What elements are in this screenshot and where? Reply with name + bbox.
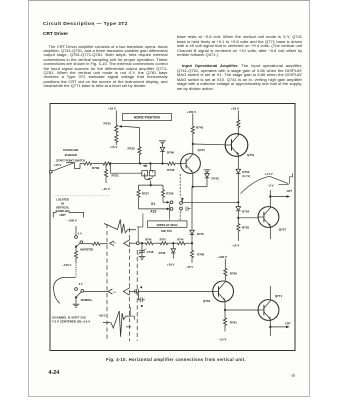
svg-text:R747: R747 bbox=[160, 238, 167, 242]
svg-text:+19 V: +19 V bbox=[167, 262, 175, 266]
svg-text:R746: R746 bbox=[145, 238, 152, 242]
svg-text:Q757: Q757 bbox=[279, 227, 287, 231]
svg-text:SW 703: SW 703 bbox=[161, 229, 172, 233]
svg-text:R760: R760 bbox=[230, 271, 238, 275]
svg-text:Q771: Q771 bbox=[275, 294, 283, 298]
svg-text:C748: C748 bbox=[147, 250, 154, 254]
svg-text:R731: R731 bbox=[112, 174, 120, 178]
svg-text:R737: R737 bbox=[142, 192, 150, 196]
svg-text:+15 V: +15 V bbox=[54, 163, 62, 167]
svg-text:(0.1 V): (0.1 V) bbox=[242, 174, 250, 178]
svg-text:–15 V: –15 V bbox=[186, 265, 193, 269]
svg-text:IN BEGIN: IN BEGIN bbox=[65, 153, 77, 157]
svg-text:NORMAL: NORMAL bbox=[81, 298, 93, 302]
svg-text:+4.7 V: +4.7 V bbox=[265, 172, 273, 176]
svg-text:–15 V: –15 V bbox=[110, 145, 118, 149]
svg-text:VERTICAL: VERTICAL bbox=[56, 205, 70, 209]
svg-text:–2 V: –2 V bbox=[268, 183, 274, 187]
svg-text:0 V: 0 V bbox=[79, 282, 83, 286]
svg-text:+150 V: +150 V bbox=[187, 110, 197, 114]
svg-text:CRT: CRT bbox=[285, 321, 291, 325]
svg-text:R738: R738 bbox=[92, 166, 100, 170]
svg-text:–15 V: –15 V bbox=[219, 338, 227, 342]
svg-text:+300 V: +300 V bbox=[68, 218, 77, 222]
svg-text:R735: R735 bbox=[128, 147, 136, 151]
svg-text:–100 V: –100 V bbox=[63, 263, 72, 267]
svg-text:HORIZ POSITION: HORIZ POSITION bbox=[134, 116, 161, 120]
svg-text:7.5 V CENTERED ON +10 V: 7.5 V CENTERED ON +10 V bbox=[52, 320, 90, 324]
svg-text:–15 V: –15 V bbox=[102, 187, 110, 191]
svg-text:–15 V: –15 V bbox=[232, 243, 240, 247]
svg-text:D743: D743 bbox=[212, 177, 220, 181]
svg-text:+19 V: +19 V bbox=[231, 106, 239, 110]
svg-text:R740: R740 bbox=[167, 168, 175, 172]
svg-text:SAMPLING: SAMPLING bbox=[56, 209, 70, 213]
svg-text:R733: R733 bbox=[104, 122, 112, 126]
svg-text:R736: R736 bbox=[166, 192, 174, 196]
svg-text:CRT: CRT bbox=[287, 189, 293, 193]
svg-text:LOCATED: LOCATED bbox=[56, 198, 69, 202]
svg-text:D740: D740 bbox=[167, 150, 175, 154]
svg-text:–100 V: –100 V bbox=[98, 315, 106, 318]
svg-text:UNIT: UNIT bbox=[59, 213, 66, 217]
svg-text:STAIRCASE: STAIRCASE bbox=[63, 148, 79, 152]
svg-text:12: 12 bbox=[113, 292, 116, 294]
svg-text:X10: X10 bbox=[150, 210, 156, 214]
svg-text:D746: D746 bbox=[159, 251, 166, 255]
svg-text:IN: IN bbox=[61, 201, 64, 205]
svg-text:INVERTED: INVERTED bbox=[80, 247, 93, 251]
svg-text:R748: R748 bbox=[197, 253, 204, 257]
svg-text:0 V: 0 V bbox=[78, 231, 82, 235]
svg-text:DISPLAY MAG: DISPLAY MAG bbox=[157, 223, 179, 227]
svg-text:Q751: Q751 bbox=[247, 153, 255, 157]
svg-text:D754: D754 bbox=[242, 209, 250, 213]
svg-text:+19 V: +19 V bbox=[108, 107, 116, 111]
svg-text:R755: R755 bbox=[242, 226, 250, 230]
svg-text:X1: X1 bbox=[151, 202, 155, 206]
svg-text:D753: D753 bbox=[242, 170, 250, 174]
svg-text:11: 11 bbox=[113, 242, 116, 244]
svg-text:+100 V: +100 V bbox=[218, 255, 228, 259]
svg-text:R761: R761 bbox=[230, 321, 238, 325]
svg-text:R742: R742 bbox=[196, 125, 204, 129]
svg-text:Q741: Q741 bbox=[198, 148, 206, 152]
svg-text:START POINT SWITCH: START POINT SWITCH bbox=[56, 159, 85, 163]
svg-text:R744: R744 bbox=[177, 238, 184, 242]
svg-text:R751: R751 bbox=[126, 327, 132, 329]
svg-text:D745: D745 bbox=[197, 232, 204, 236]
svg-text:Q761: Q761 bbox=[203, 299, 211, 303]
